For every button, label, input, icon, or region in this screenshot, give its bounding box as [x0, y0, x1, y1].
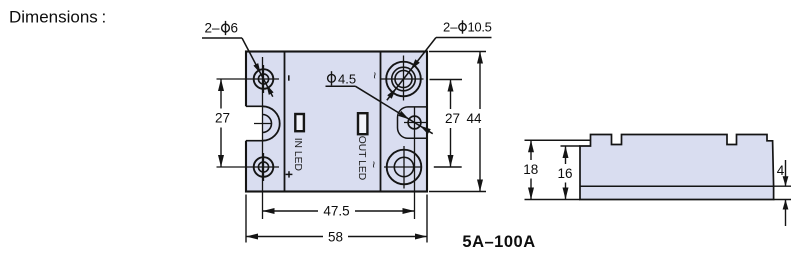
svg-text::: : [102, 8, 107, 27]
svg-text:IN LED: IN LED [292, 138, 303, 171]
svg-text:27: 27 [445, 111, 460, 126]
svg-text:10.5: 10.5 [468, 19, 492, 34]
svg-text:5A–100A: 5A–100A [462, 233, 535, 251]
svg-text:18: 18 [523, 162, 538, 177]
svg-text:Dimensions: Dimensions [9, 8, 98, 27]
svg-text:~: ~ [367, 72, 381, 79]
svg-text:44: 44 [466, 111, 482, 126]
svg-text:4: 4 [777, 163, 785, 178]
svg-text:58: 58 [328, 229, 343, 244]
svg-text:6: 6 [231, 21, 239, 36]
svg-text:OUT LED: OUT LED [356, 136, 367, 180]
svg-text:2–: 2– [443, 19, 458, 34]
svg-text:16: 16 [557, 166, 572, 181]
svg-text:2–: 2– [204, 21, 220, 36]
svg-text:~: ~ [367, 161, 381, 168]
svg-text:4.5: 4.5 [338, 72, 356, 87]
svg-text:47.5: 47.5 [323, 204, 349, 219]
svg-text:27: 27 [215, 111, 230, 126]
